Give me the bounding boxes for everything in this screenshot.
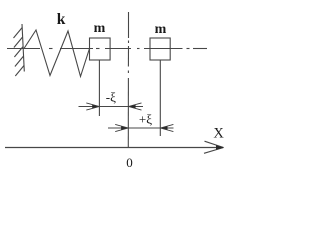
X axis: [5, 147, 223, 149]
mass box m2: [150, 38, 170, 60]
dimension line -xi (y=106.5): [79, 106, 144, 108]
vertical centerline x=128.4 (dash-dot then solid to axis): [127, 12, 129, 148]
-xi right arrow barbs: [128, 103, 141, 107]
svg-text:m: m: [155, 22, 167, 37]
+xi left arrow (points right at x=128.3): [121, 126, 128, 130]
svg-text:k: k: [57, 11, 66, 28]
svg-text:m: m: [94, 21, 106, 36]
wall hatch 1: [14, 28, 23, 39]
dimension line +xi (y=128): [108, 127, 174, 129]
extension line below m2: [159, 60, 161, 136]
wall hatch 2: [14, 37, 23, 48]
wall hatch 3: [14, 47, 23, 58]
svg-text:X: X: [213, 125, 224, 141]
-xi right arrow (points left at x=128.4): [128, 104, 135, 108]
+xi right arrow (points left at x=160.3): [160, 126, 167, 130]
X axis arrow barbs: [205, 141, 224, 147]
extension line below m1: [98, 60, 100, 116]
-xi left arrow (points right at x=99.4): [92, 104, 99, 108]
arrow barbs (thin lines): [86, 103, 173, 132]
+xi left arrow barbs: [115, 124, 128, 128]
+xi right arrow barbs: [160, 124, 173, 128]
horizontal centerline (dash-dot) y=48.5: [7, 48, 207, 50]
svg-text:-ξ: -ξ: [106, 89, 116, 104]
wall hatch 4: [15, 56, 24, 67]
arrowheads (filled): [92, 104, 224, 149]
svg-text:0: 0: [126, 155, 133, 170]
X axis arrowhead: [216, 145, 224, 149]
wall hatch 5: [15, 66, 24, 77]
spring k: [24, 30, 90, 77]
-xi left arrow barbs: [86, 103, 99, 107]
mass box m1: [90, 38, 111, 60]
svg-text:+ξ: +ξ: [139, 112, 152, 127]
wall: [22, 24, 24, 72]
